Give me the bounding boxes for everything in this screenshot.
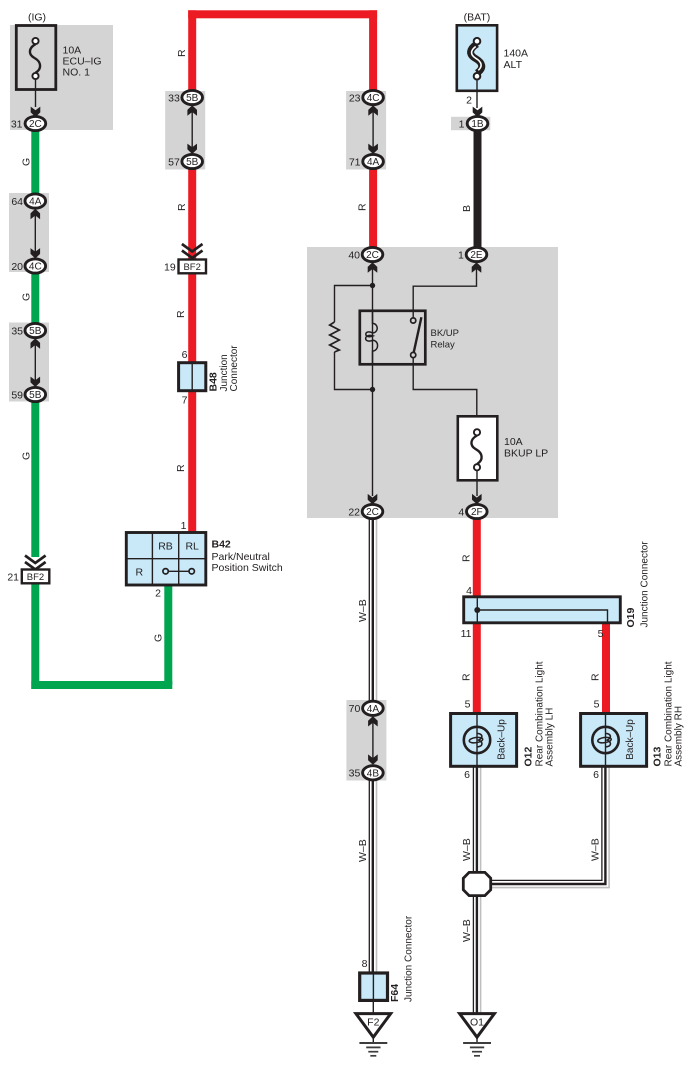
svg-text:1: 1 <box>458 249 464 261</box>
wire: W-B vertical 22(2C) to 70(4A) <box>369 519 376 702</box>
fuse BKUP LP box <box>458 416 498 480</box>
connector 71(4A) <box>349 154 384 168</box>
junction connector B48 <box>179 363 206 391</box>
svg-text:Junction Connector: Junction Connector <box>640 541 651 628</box>
svg-text:R: R <box>357 203 369 211</box>
wire: switch to BKUP LP fuse <box>413 358 477 418</box>
svg-text:21: 21 <box>7 571 19 583</box>
wire: thin link 35-59 <box>34 344 36 382</box>
svg-text:6: 6 <box>593 769 599 781</box>
svg-text:5B: 5B <box>29 390 42 401</box>
svg-text:F64: F64 <box>389 984 401 1002</box>
arrow up below 33(5B) <box>187 105 197 115</box>
svg-text:W–B: W–B <box>461 838 473 861</box>
connector 1(2E) <box>458 247 487 261</box>
svg-text:2E: 2E <box>470 250 483 261</box>
arrow down into 20(4C) <box>31 248 41 258</box>
wire: green vertical 31(2C) to 64(4A) <box>31 130 39 202</box>
connector 35(4B) <box>349 766 384 780</box>
svg-text:4A: 4A <box>367 704 380 715</box>
svg-text:5B: 5B <box>29 326 42 337</box>
junction connector O19 <box>464 597 621 623</box>
svg-text:ALT: ALT <box>504 59 523 71</box>
svg-text:O13: O13 <box>652 746 664 766</box>
svg-text:Connector: Connector <box>229 345 240 392</box>
svg-text:Assembly LH: Assembly LH <box>545 708 556 767</box>
svg-text:G: G <box>21 452 33 460</box>
svg-text:4A: 4A <box>367 157 380 168</box>
ground O1 triangle <box>460 1014 495 1038</box>
relay switch top contact <box>411 318 416 323</box>
wire: thin lead ALT to 1(1B) <box>476 80 478 109</box>
svg-text:2C: 2C <box>29 119 42 130</box>
wire: thin lead fuse to 31(2C) <box>35 79 37 107</box>
svg-text:6: 6 <box>182 349 188 361</box>
connector 33(5B) <box>168 90 202 104</box>
resistor (relay coil suppression) <box>330 322 340 352</box>
bulb symbol O12 <box>464 727 490 753</box>
connector 20(4C) <box>11 259 45 273</box>
svg-text:Assembly RH: Assembly RH <box>674 706 685 767</box>
connector 31(2C) <box>11 116 46 130</box>
arrow up below 35(5B) <box>31 338 41 348</box>
svg-text:G: G <box>21 158 33 166</box>
svg-text:31: 31 <box>11 118 23 130</box>
connector 4(2F) <box>458 504 487 518</box>
svg-text:4B: 4B <box>367 768 380 779</box>
svg-text:(BAT): (BAT) <box>464 12 491 24</box>
wire: red vertical B48 pin 7 to B42 pin 1 <box>188 391 196 535</box>
ground F2 triangle <box>356 1014 391 1038</box>
svg-text:4C: 4C <box>367 93 380 104</box>
arrow up below 64(4A) <box>31 209 41 219</box>
wire: green vertical up to B42 pin 2 <box>164 586 172 685</box>
svg-text:B48: B48 <box>208 372 220 391</box>
svg-text:R: R <box>590 673 602 681</box>
svg-text:G: G <box>153 634 165 642</box>
shaded block: connector 1(1B) strip <box>451 117 490 130</box>
arrow up below 70(4A) <box>368 716 378 726</box>
wire: thin link 23-71 <box>372 111 374 149</box>
connector 22(2C) <box>348 504 382 518</box>
svg-text:33: 33 <box>168 92 180 104</box>
wire: red vertical 71(4A) to 40(2C) <box>369 162 377 255</box>
arrow down into 35(4B) <box>368 754 378 764</box>
ground O1 earth bars <box>463 1037 491 1056</box>
svg-text:5B: 5B <box>186 93 199 104</box>
svg-text:R: R <box>136 566 144 578</box>
svg-text:B: B <box>461 205 473 212</box>
wire: red vertical O19 pin 5 to O13 pin 5 <box>602 622 610 714</box>
svg-text:RL: RL <box>185 540 199 552</box>
wire: red vertical 57(5B) to chevron 19 <box>188 162 196 260</box>
svg-text:57: 57 <box>168 156 180 168</box>
svg-text:NO. 1: NO. 1 <box>63 67 91 79</box>
svg-text:Back–Up: Back–Up <box>497 719 508 760</box>
connector 23(4C) <box>349 90 384 104</box>
svg-text:19: 19 <box>164 261 176 273</box>
wire: W-B vertical O12 pin 6 to octagon junction <box>473 766 480 871</box>
svg-text:7: 7 <box>182 395 188 407</box>
page chevrons above BF2 19 <box>182 244 203 258</box>
svg-text:2: 2 <box>466 95 472 107</box>
shaded block: IG fuse area <box>10 25 113 130</box>
node: junction dot top <box>370 283 375 288</box>
svg-text:O1: O1 <box>470 1017 484 1029</box>
arrow down into 59(5B) <box>31 377 41 387</box>
wire: green vertical BF2 21 down to bottom corner <box>31 583 39 689</box>
wire: red vertical O19 pin 11 to O12 pin 5 <box>473 622 481 714</box>
arrow down into 57(5B) <box>187 144 197 154</box>
relay switch bottom contact <box>411 352 416 357</box>
connector 40(2C) <box>348 247 382 261</box>
fusible link ALT box <box>457 25 497 91</box>
lamp O12 Back-Up body <box>451 714 517 767</box>
arrow down into 4(2F) <box>472 494 482 504</box>
svg-text:BKUP LP: BKUP LP <box>504 448 548 460</box>
svg-text:70: 70 <box>349 703 361 715</box>
svg-text:5: 5 <box>465 699 471 711</box>
svg-text:5B: 5B <box>186 157 199 168</box>
arrow up below 40(2C) <box>368 262 378 272</box>
wire: red vertical BF2 19 to B48 pin 6 <box>188 273 196 364</box>
wire: relay coil feed line 40(2C) down to 22(2C) <box>372 267 374 496</box>
svg-text:BF2: BF2 <box>183 262 200 273</box>
svg-text:R: R <box>461 554 473 562</box>
svg-text:10A: 10A <box>504 436 523 448</box>
wire: green bottom horizontal run <box>31 681 172 689</box>
wire: W-B vertical octagon to ground O1 <box>473 897 480 1013</box>
svg-text:RB: RB <box>158 540 173 552</box>
ground F2 earth bars <box>359 1037 387 1056</box>
svg-text:5: 5 <box>598 628 604 640</box>
svg-text:O12: O12 <box>523 746 535 766</box>
shaded block: connector pair 33(5B)/57(5B) <box>165 91 205 170</box>
connector 19 BF2 <box>164 260 206 274</box>
op: relay box BK/UP <box>360 311 426 365</box>
svg-text:Position Switch: Position Switch <box>212 562 283 574</box>
fuse BKUP LP symbol <box>471 429 481 470</box>
shaded block: BK/UP relay block <box>307 247 558 518</box>
junction connector F64 <box>360 973 388 1000</box>
lamp O13 Back-Up body <box>581 714 647 767</box>
svg-text:W–B: W–B <box>461 919 473 942</box>
svg-text:R: R <box>176 203 188 211</box>
svg-text:64: 64 <box>11 196 23 208</box>
connector 35(5B) <box>11 323 45 337</box>
shaded block: connector pair 23(4C)/71(4A) <box>346 91 386 170</box>
svg-text:2F: 2F <box>471 507 483 518</box>
svg-text:20: 20 <box>11 261 23 273</box>
svg-text:4A: 4A <box>29 197 42 208</box>
svg-text:R: R <box>176 49 188 57</box>
junction octagon <box>463 872 490 895</box>
relay coil <box>366 311 378 364</box>
wire: thin link 33-57 <box>191 111 193 149</box>
svg-text:Back–Up: Back–Up <box>625 719 636 760</box>
fusible link ALT symbol <box>471 38 482 80</box>
svg-text:2: 2 <box>155 588 161 600</box>
svg-text:71: 71 <box>349 156 361 168</box>
arrow into 31(2C) <box>31 107 41 117</box>
svg-text:BK/UP: BK/UP <box>431 328 460 339</box>
wire: green vertical 59(5B) to chevron 21 <box>31 395 39 558</box>
svg-text:1B: 1B <box>471 119 484 130</box>
svg-text:40: 40 <box>348 249 360 261</box>
wire: fuse to 4(2F) <box>476 470 478 496</box>
arrow up below 23(4C) <box>368 105 378 115</box>
svg-text:W–B: W–B <box>357 839 369 862</box>
svg-text:W–B: W–B <box>357 599 369 622</box>
switch B42 contacts <box>163 569 194 574</box>
connector 64(4A) <box>11 194 45 208</box>
svg-text:1: 1 <box>459 118 465 130</box>
switch B42 Park/Neutral Position body <box>126 533 206 586</box>
wire: thin link 70-35 <box>372 721 374 759</box>
svg-text:2C: 2C <box>366 507 379 518</box>
svg-text:R: R <box>461 673 473 681</box>
fuse ECU-IG symbol <box>30 38 40 79</box>
svg-text:W–B: W–B <box>590 838 602 861</box>
svg-text:140A: 140A <box>504 48 529 60</box>
arrow down into 71(4A) <box>368 144 378 154</box>
svg-text:11: 11 <box>461 628 472 640</box>
shaded block: connector pair 35(5B)/59(5B) <box>9 323 49 402</box>
svg-text:R: R <box>175 310 187 318</box>
svg-text:4: 4 <box>466 585 472 597</box>
wire: 2E branch to switch <box>413 267 476 318</box>
arrow up below 1(2E) <box>472 262 482 272</box>
svg-text:Junction Connector: Junction Connector <box>404 915 415 1002</box>
wire: red vertical 4(2F) to O19 pin 4 <box>473 519 481 598</box>
svg-text:R: R <box>175 464 187 472</box>
wire: black B wire 1(1B) to 1(2E) <box>474 130 482 255</box>
svg-text:35: 35 <box>349 768 361 780</box>
relay switch blade <box>414 317 422 352</box>
svg-text:BF2: BF2 <box>27 572 44 583</box>
svg-text:F2: F2 <box>367 1017 379 1029</box>
wire: resistor branch <box>335 286 373 390</box>
arrow down into 22(2C) <box>368 494 378 504</box>
svg-text:59: 59 <box>11 389 23 401</box>
shaded block: connector pair 64(4A)/20(4C) <box>9 193 49 272</box>
svg-text:1: 1 <box>181 520 187 532</box>
svg-text:B42: B42 <box>212 539 231 551</box>
svg-text:22: 22 <box>348 506 360 518</box>
wire: thin link 64-20 <box>34 214 36 252</box>
page chevrons above BF2 21 <box>25 556 46 570</box>
svg-text:4C: 4C <box>29 262 42 273</box>
wire: red vertical x373 top bar to 23(4C) <box>369 10 377 97</box>
connector 57(5B) <box>168 154 202 168</box>
connector 59(5B) <box>11 387 45 401</box>
svg-text:4: 4 <box>458 506 464 518</box>
svg-text:6: 6 <box>464 769 470 781</box>
svg-text:(IG): (IG) <box>28 12 46 24</box>
arrow into 1(1B) <box>473 107 483 117</box>
svg-text:G: G <box>21 293 33 301</box>
connector 1(1B) <box>459 116 488 130</box>
svg-text:35: 35 <box>11 325 23 337</box>
wire: W-B L-run O13 pin 6 to octagon junction <box>491 766 609 887</box>
svg-text:23: 23 <box>349 92 361 104</box>
shaded block: connector pair 70(4A)/35(4B) <box>346 700 386 781</box>
connector 21 BF2 <box>7 570 49 584</box>
svg-text:8: 8 <box>362 958 368 970</box>
node: junction dot bottom <box>370 387 375 392</box>
wire: red top bar from node B to node C <box>188 10 377 18</box>
bulb symbol O13 <box>592 727 618 753</box>
svg-text:O19: O19 <box>625 607 637 627</box>
svg-text:Relay: Relay <box>431 340 456 351</box>
fuse ECU-IG box <box>16 26 56 90</box>
wire: green vertical 20(4C) to 35(5B) <box>31 266 39 331</box>
wire: F64 to ground F2 <box>372 1000 374 1013</box>
connector 70(4A) <box>349 701 384 715</box>
wire: W-B vertical 35(4B) to F64 pin 8 <box>369 780 376 974</box>
wire: red vertical x192 top bar to 33(5B) <box>188 10 196 97</box>
svg-text:5: 5 <box>594 699 600 711</box>
svg-text:2C: 2C <box>366 250 379 261</box>
